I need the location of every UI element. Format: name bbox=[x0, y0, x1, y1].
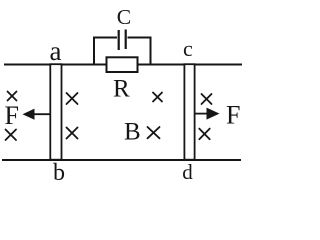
svg-text:F: F bbox=[5, 101, 19, 130]
svg-text:B: B bbox=[124, 119, 141, 146]
svg-text:C: C bbox=[117, 5, 131, 29]
svg-text:d: d bbox=[182, 160, 193, 184]
svg-text:R: R bbox=[113, 75, 130, 102]
svg-text:F: F bbox=[226, 101, 240, 130]
svg-text:c: c bbox=[183, 36, 193, 61]
svg-text:a: a bbox=[50, 36, 62, 66]
svg-text:b: b bbox=[53, 160, 65, 186]
